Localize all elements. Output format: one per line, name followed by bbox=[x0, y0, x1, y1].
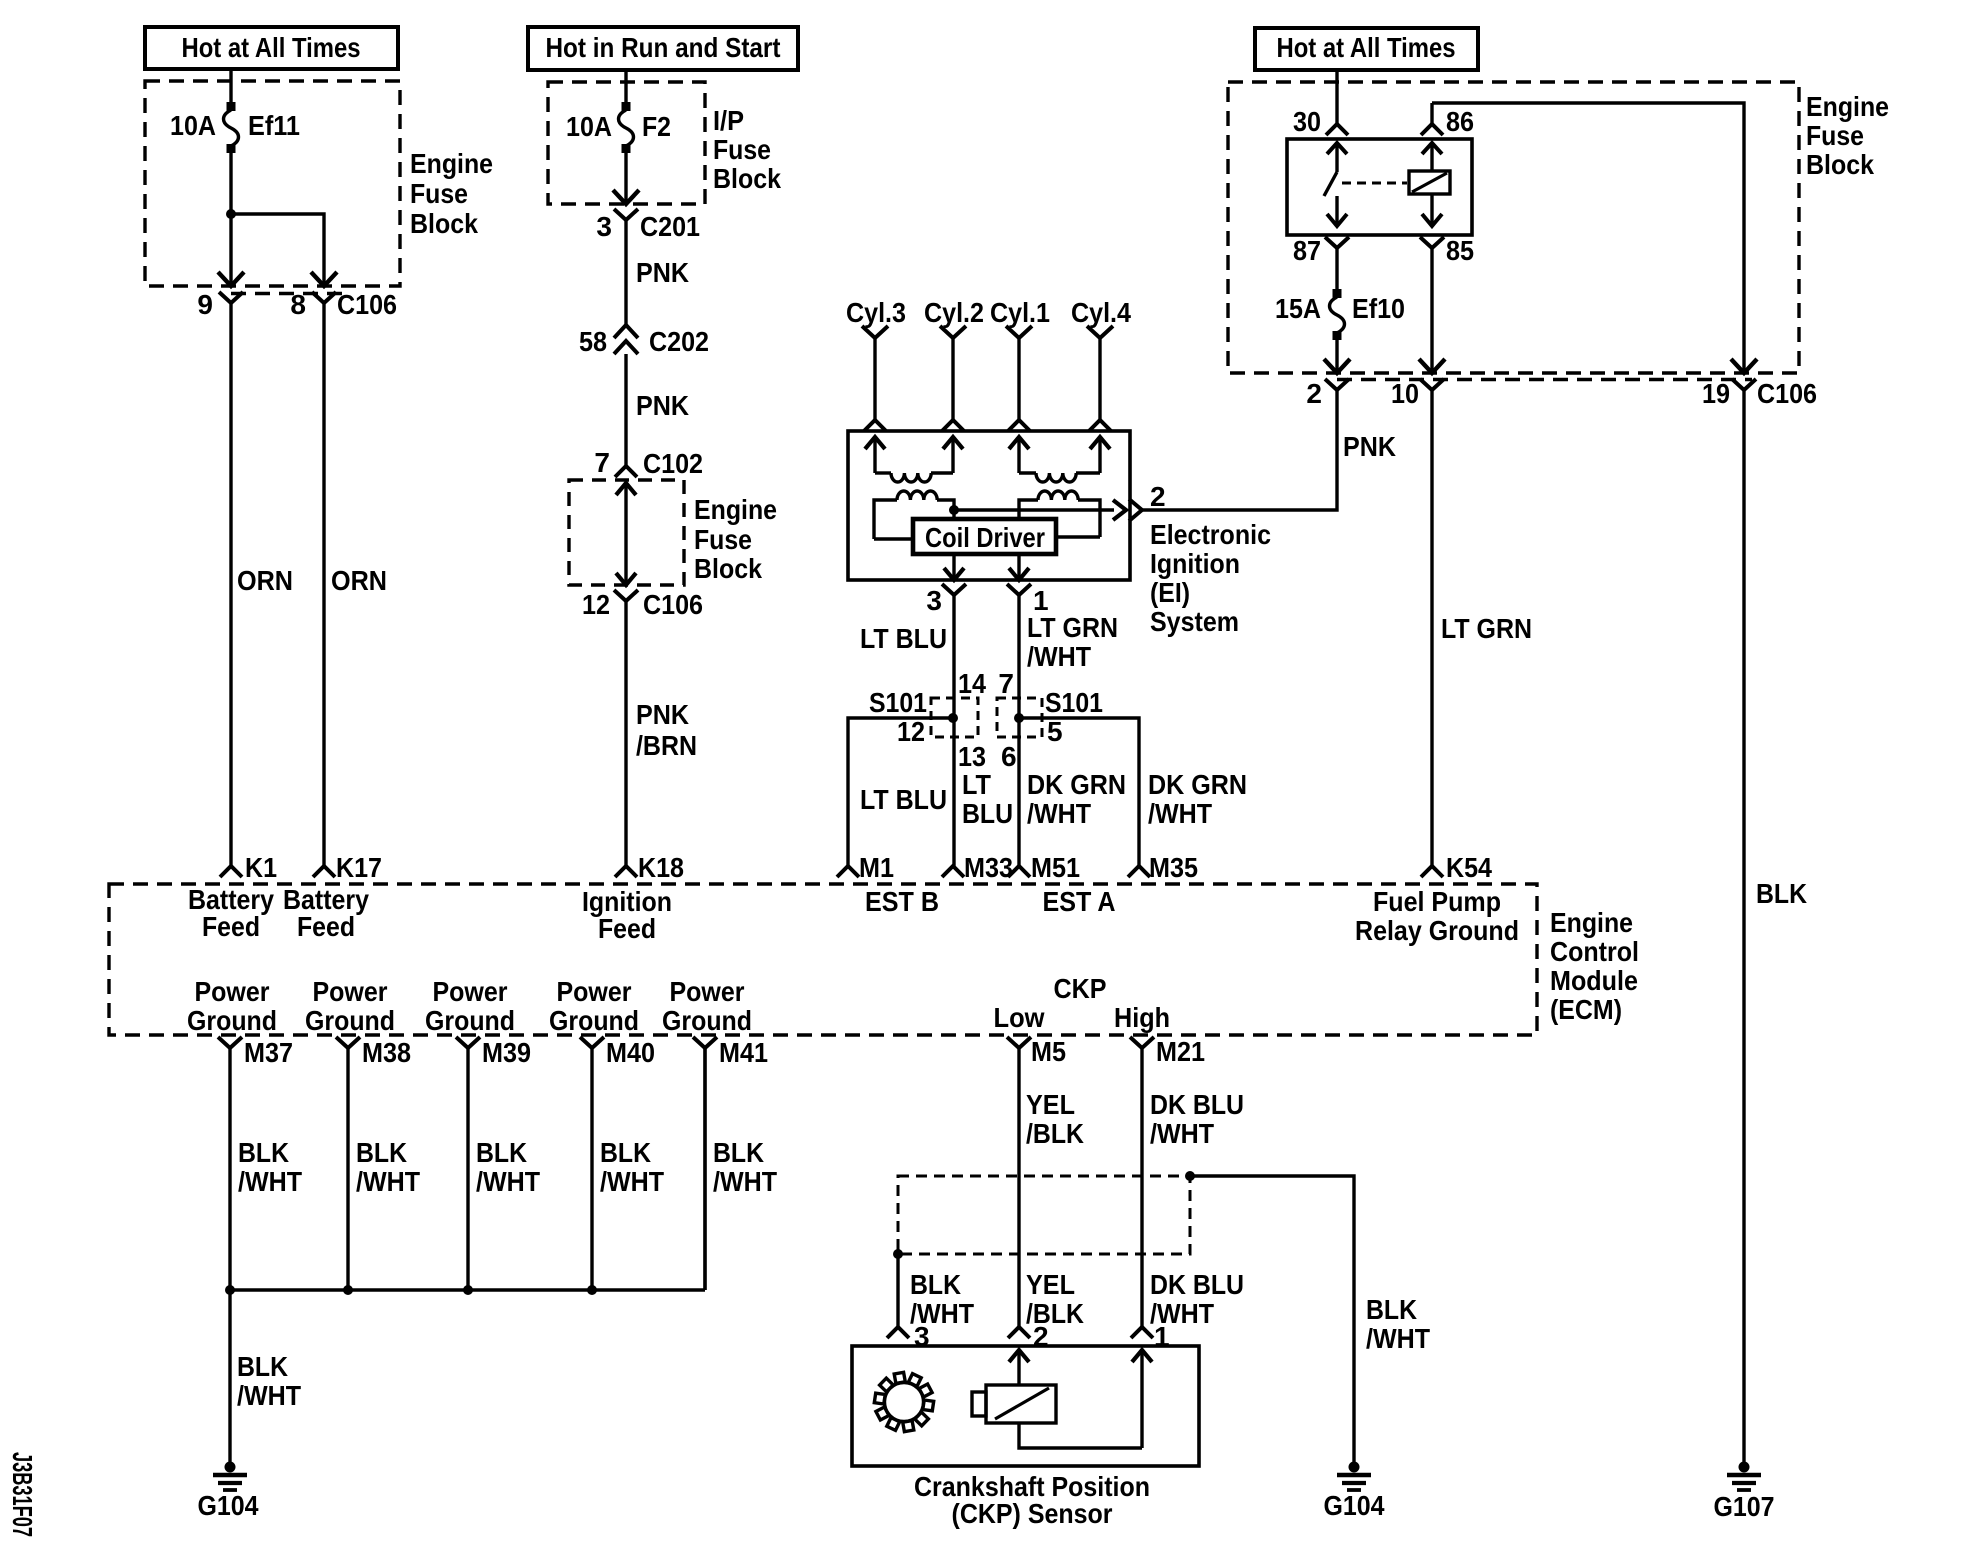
svg-text:Cyl.3: Cyl.3 bbox=[846, 297, 906, 328]
wire PNK/BRN bbox=[624, 601, 627, 866]
svg-text:85: 85 bbox=[1446, 235, 1474, 266]
svg-text:Power: Power bbox=[670, 976, 745, 1007]
svg-text:C106: C106 bbox=[337, 289, 397, 320]
relay link dashed bbox=[1342, 182, 1407, 185]
arrow coil Cyl.3 bbox=[865, 437, 885, 449]
wire LT GRN/WHT bbox=[1017, 595, 1020, 866]
svg-text:Ground: Ground bbox=[549, 1005, 639, 1036]
svg-text:19: 19 bbox=[1702, 378, 1730, 409]
svg-text:Cyl.1: Cyl.1 bbox=[990, 297, 1050, 328]
svg-text:Block: Block bbox=[713, 163, 781, 194]
svg-text:YEL: YEL bbox=[1026, 1089, 1075, 1120]
svg-text:PNK: PNK bbox=[636, 257, 689, 288]
svg-text:M5: M5 bbox=[1031, 1036, 1066, 1067]
svg-text:BLK: BLK bbox=[1366, 1294, 1417, 1325]
junction dot bbox=[226, 209, 236, 219]
label box "Hot in Run and Start" bbox=[528, 27, 798, 70]
svg-text:K1: K1 bbox=[245, 852, 277, 883]
arrow bbox=[1324, 359, 1350, 373]
svg-text:30: 30 bbox=[1293, 106, 1321, 137]
svg-text:Fuel Pump: Fuel Pump bbox=[1373, 886, 1501, 917]
connector K18 bbox=[615, 866, 637, 877]
svg-text:ORN: ORN bbox=[331, 565, 387, 596]
svg-text:S101: S101 bbox=[1045, 687, 1103, 718]
svg-text:M1: M1 bbox=[859, 852, 894, 883]
svg-text:J3B31F07: J3B31F07 bbox=[7, 1452, 38, 1537]
wire BLK/WHT bbox=[703, 1048, 706, 1290]
svg-text:LT BLU: LT BLU bbox=[860, 623, 947, 654]
svg-text:C201: C201 bbox=[640, 211, 700, 242]
engine fuse block (right) dashed box bbox=[1228, 82, 1799, 373]
svg-text:/WHT: /WHT bbox=[1027, 798, 1091, 829]
arrow bbox=[616, 573, 636, 585]
connector M38 bbox=[336, 1037, 360, 1048]
svg-text:87: 87 bbox=[1293, 235, 1321, 266]
arrow bbox=[952, 554, 955, 579]
svg-text:(CKP) Sensor: (CKP) Sensor bbox=[952, 1498, 1113, 1529]
svg-text:Cyl.2: Cyl.2 bbox=[924, 297, 984, 328]
connector M35 bbox=[1128, 866, 1150, 877]
connector pin 8 bbox=[312, 292, 336, 303]
svg-text:10A: 10A bbox=[566, 111, 612, 142]
wire BLK/WHT to G104 bbox=[228, 1290, 231, 1467]
svg-text:Control: Control bbox=[1550, 936, 1639, 967]
connector Cyl.2 at coil bbox=[942, 420, 964, 431]
svg-text:BLK: BLK bbox=[238, 1137, 289, 1168]
svg-text:/WHT: /WHT bbox=[1148, 798, 1212, 829]
connector EI pin 1 bbox=[1007, 584, 1031, 595]
wire BLK/WHT bbox=[590, 1048, 593, 1290]
connector C106 pin 12 bbox=[614, 590, 638, 601]
svg-text:High: High bbox=[1114, 1002, 1170, 1033]
svg-text:/WHT: /WHT bbox=[237, 1380, 301, 1411]
svg-text:CKP: CKP bbox=[1054, 973, 1107, 1004]
svg-text:/BLK: /BLK bbox=[1026, 1118, 1084, 1149]
wire YEL/BLK bbox=[1017, 1048, 1020, 1327]
connector M21 bbox=[1130, 1037, 1154, 1048]
wire BLK/WHT bbox=[346, 1048, 349, 1290]
svg-text:BLK: BLK bbox=[713, 1137, 764, 1168]
wire shield to G104 bbox=[1190, 1176, 1354, 1467]
svg-text:Ignition: Ignition bbox=[1150, 548, 1240, 579]
CKP reluctor gear bbox=[885, 1383, 924, 1422]
svg-text:Feed: Feed bbox=[202, 911, 260, 942]
svg-text:Power: Power bbox=[313, 976, 388, 1007]
svg-text:Ef11: Ef11 bbox=[248, 110, 300, 141]
svg-text:13: 13 bbox=[958, 741, 986, 772]
connector C201 pin 3 bbox=[614, 209, 638, 220]
wire DK BLU/WHT bbox=[1140, 1048, 1143, 1327]
wire BLK bbox=[1742, 390, 1745, 1467]
svg-text:/WHT: /WHT bbox=[1366, 1323, 1430, 1354]
wire DK GRN/WHT to M35 bbox=[1019, 718, 1139, 866]
wire bbox=[1430, 248, 1433, 371]
label box "Hot at All Times" (left) bbox=[145, 27, 398, 69]
svg-text:C102: C102 bbox=[643, 448, 703, 479]
ground G104 (left) bbox=[225, 1462, 236, 1473]
wire bbox=[231, 214, 324, 284]
connector C106 pin 10 bbox=[1420, 379, 1444, 390]
connector Cyl.1 at coil bbox=[1008, 420, 1030, 431]
arrow bbox=[613, 190, 639, 204]
svg-text:/BRN: /BRN bbox=[636, 730, 697, 761]
svg-text:(ECM): (ECM) bbox=[1550, 994, 1622, 1025]
svg-text:M39: M39 bbox=[482, 1037, 531, 1068]
svg-text:10A: 10A bbox=[170, 110, 216, 141]
svg-text:BLK: BLK bbox=[476, 1137, 527, 1168]
svg-text:(EI): (EI) bbox=[1150, 577, 1190, 608]
wire PNK to EI bbox=[1142, 390, 1337, 510]
arrow bbox=[1419, 359, 1445, 373]
wire sensor loop bbox=[1019, 1423, 1142, 1448]
svg-text:Ground: Ground bbox=[305, 1005, 395, 1036]
connector K54 bbox=[1421, 866, 1443, 877]
svg-text:I/P: I/P bbox=[713, 105, 744, 136]
CKP pickup coil bbox=[972, 1392, 986, 1416]
svg-text:Fuse: Fuse bbox=[713, 134, 771, 165]
svg-text:System: System bbox=[1150, 606, 1239, 637]
wire bbox=[1432, 103, 1744, 371]
fuse Ef10 15A bbox=[1333, 289, 1342, 298]
connector Cyl.4 bbox=[1087, 326, 1113, 338]
wire bbox=[1430, 103, 1433, 124]
svg-text:/WHT: /WHT bbox=[356, 1166, 420, 1197]
svg-text:PNK: PNK bbox=[1343, 431, 1396, 462]
svg-text:LT GRN: LT GRN bbox=[1441, 613, 1532, 644]
svg-text:M38: M38 bbox=[362, 1037, 411, 1068]
svg-text:/WHT: /WHT bbox=[600, 1166, 664, 1197]
svg-text:14: 14 bbox=[958, 668, 986, 699]
svg-text:Ground: Ground bbox=[187, 1005, 277, 1036]
junction dot bbox=[225, 1285, 235, 1295]
arrow bbox=[311, 272, 337, 286]
svg-text:M21: M21 bbox=[1156, 1036, 1205, 1067]
svg-text:3: 3 bbox=[926, 585, 942, 616]
connector M39 bbox=[456, 1037, 480, 1048]
svg-text:M41: M41 bbox=[719, 1037, 768, 1068]
junction dot bbox=[949, 505, 959, 515]
svg-text:/WHT: /WHT bbox=[476, 1166, 540, 1197]
wire bbox=[1098, 338, 1101, 420]
svg-text:BLK: BLK bbox=[910, 1269, 961, 1300]
connector M41 bbox=[693, 1037, 717, 1048]
engine fuse block (left) dashed box bbox=[145, 81, 400, 286]
svg-text:Engine: Engine bbox=[1550, 907, 1633, 938]
svg-text:G107: G107 bbox=[1714, 1491, 1775, 1522]
svg-text:G104: G104 bbox=[198, 1490, 259, 1521]
relay switch arm bbox=[1335, 146, 1338, 172]
svg-text:2: 2 bbox=[1306, 378, 1322, 409]
svg-text:PNK: PNK bbox=[636, 390, 689, 421]
svg-text:86: 86 bbox=[1446, 106, 1474, 137]
svg-text:Electronic: Electronic bbox=[1150, 519, 1271, 550]
wire EI output bbox=[954, 508, 1114, 511]
primary winding right bbox=[1019, 500, 1038, 519]
wire BLK/WHT bbox=[228, 1048, 231, 1290]
wire bbox=[873, 338, 876, 420]
shield dashed box bbox=[898, 1176, 1190, 1254]
svg-text:K18: K18 bbox=[638, 852, 684, 883]
connector C106 pin 19 bbox=[1732, 379, 1756, 390]
wire PNK bbox=[624, 354, 627, 466]
primary winding left bbox=[874, 500, 897, 539]
svg-text:BLU: BLU bbox=[962, 798, 1013, 829]
connector CKP pin 3 bbox=[887, 1327, 909, 1338]
svg-text:Relay Ground: Relay Ground bbox=[1355, 915, 1519, 946]
svg-text:Fuse: Fuse bbox=[410, 178, 468, 209]
svg-text:EST A: EST A bbox=[1043, 886, 1116, 917]
arrow bbox=[616, 483, 636, 495]
svg-text:Engine: Engine bbox=[694, 494, 777, 525]
svg-text:Cyl.4: Cyl.4 bbox=[1071, 297, 1131, 328]
arrow coil Cyl.4 bbox=[1090, 437, 1110, 449]
svg-text:ORN: ORN bbox=[237, 565, 293, 596]
svg-text:DK GRN: DK GRN bbox=[1027, 769, 1126, 800]
svg-text:Hot at All Times: Hot at All Times bbox=[1277, 32, 1456, 63]
svg-text:C106: C106 bbox=[1757, 378, 1817, 409]
coil driver box bbox=[913, 519, 1056, 554]
svg-text:3: 3 bbox=[596, 211, 612, 242]
connector Cyl.4 at coil bbox=[1089, 420, 1111, 431]
junction dot bbox=[463, 1285, 473, 1295]
svg-text:58: 58 bbox=[579, 326, 607, 357]
svg-text:PNK: PNK bbox=[636, 699, 689, 730]
connector M33 bbox=[942, 866, 964, 877]
svg-text:S101: S101 bbox=[869, 687, 927, 718]
svg-text:K54: K54 bbox=[1446, 852, 1492, 883]
svg-text:Coil Driver: Coil Driver bbox=[925, 522, 1045, 553]
svg-text:5: 5 bbox=[1047, 716, 1063, 747]
svg-text:YEL: YEL bbox=[1026, 1269, 1075, 1300]
svg-text:/WHT: /WHT bbox=[1150, 1118, 1214, 1149]
connector C106 pin 2 bbox=[1325, 379, 1349, 390]
svg-text:M33: M33 bbox=[964, 852, 1013, 883]
connector C102 pin 7 bbox=[615, 466, 637, 477]
connector EI pin 2 bbox=[1129, 499, 1142, 521]
arrow bbox=[1731, 359, 1757, 373]
svg-text:Low: Low bbox=[994, 1002, 1045, 1033]
svg-text:BLK: BLK bbox=[237, 1351, 288, 1382]
svg-text:Engine: Engine bbox=[410, 148, 493, 179]
wire LT GRN bbox=[1430, 390, 1433, 866]
svg-text:BLK: BLK bbox=[600, 1137, 651, 1168]
svg-text:C106: C106 bbox=[643, 589, 703, 620]
svg-text:7: 7 bbox=[594, 447, 610, 478]
connector EI pin 3 bbox=[942, 584, 966, 595]
svg-text:Block: Block bbox=[1806, 149, 1874, 180]
wire PNK bbox=[624, 220, 627, 325]
svg-text:M51: M51 bbox=[1031, 852, 1080, 883]
connector relay pin 30 bbox=[1326, 124, 1348, 135]
svg-text:K17: K17 bbox=[336, 852, 382, 883]
svg-text:M37: M37 bbox=[244, 1037, 293, 1068]
svg-text:M40: M40 bbox=[606, 1037, 655, 1068]
svg-text:Fuse: Fuse bbox=[1806, 120, 1864, 151]
connector C106 dashed line (pins 9,8) bbox=[231, 292, 343, 295]
svg-text:/WHT: /WHT bbox=[1027, 641, 1091, 672]
splice S101 right dashed box bbox=[997, 698, 1042, 737]
I/P fuse block dashed box bbox=[548, 82, 705, 204]
wire bbox=[874, 537, 913, 540]
svg-text:Ground: Ground bbox=[425, 1005, 515, 1036]
wire LT BLU to M1 bbox=[848, 718, 953, 866]
fuse F2 10A bbox=[622, 102, 631, 111]
svg-text:M35: M35 bbox=[1149, 852, 1198, 883]
ground G107 bbox=[1739, 1462, 1750, 1473]
svg-text:15A: 15A bbox=[1275, 293, 1321, 324]
svg-text:Fuse: Fuse bbox=[694, 524, 752, 555]
svg-text:C202: C202 bbox=[649, 326, 709, 357]
relay coil arrow up bbox=[1430, 146, 1433, 171]
wire ORN bbox=[229, 303, 232, 866]
relay arrow down 87 bbox=[1335, 196, 1338, 225]
connector Cyl.3 bbox=[862, 326, 888, 338]
connector Cyl.1 bbox=[1006, 326, 1032, 338]
svg-text:Ground: Ground bbox=[662, 1005, 752, 1036]
connector C106 dashed line (pins 2,10,19) bbox=[1337, 378, 1752, 381]
wire bbox=[229, 150, 232, 284]
wire BLK/WHT shield bbox=[896, 1254, 899, 1327]
svg-text:Power: Power bbox=[557, 976, 632, 1007]
connector relay pin 85 bbox=[1420, 237, 1444, 248]
junction dot bbox=[587, 1285, 597, 1295]
svg-text:Feed: Feed bbox=[598, 913, 656, 944]
svg-text:Ef10: Ef10 bbox=[1352, 293, 1405, 324]
connector relay pin 86 bbox=[1421, 124, 1443, 135]
wire bbox=[229, 69, 232, 103]
relay arrow down 85 bbox=[1430, 194, 1433, 225]
wire bbox=[1335, 248, 1338, 291]
relay coil bbox=[1409, 171, 1450, 194]
arrow bbox=[1113, 500, 1126, 520]
svg-text:8: 8 bbox=[290, 289, 306, 320]
connector M5 bbox=[1007, 1037, 1031, 1048]
svg-text:BLK: BLK bbox=[1756, 878, 1807, 909]
ground bus wire bbox=[230, 1288, 705, 1291]
secondary winding Cyl.1-Cyl.4 bbox=[1019, 471, 1036, 474]
connector relay pin 87 bbox=[1325, 237, 1349, 248]
svg-text:Hot in Run and Start: Hot in Run and Start bbox=[546, 32, 781, 63]
wire bbox=[951, 338, 954, 420]
connector M1 bbox=[837, 866, 859, 877]
svg-text:Engine: Engine bbox=[1806, 91, 1889, 122]
svg-text:LT: LT bbox=[962, 769, 991, 800]
arrow coil Cyl.2 bbox=[943, 437, 963, 449]
connector Cyl.3 at coil bbox=[864, 420, 886, 431]
svg-text:LT BLU: LT BLU bbox=[860, 784, 947, 815]
svg-text:DK BLU: DK BLU bbox=[1150, 1089, 1244, 1120]
connector M37 bbox=[218, 1037, 242, 1048]
ground G104 (right) bbox=[1349, 1462, 1360, 1473]
fuse Ef11 10A bbox=[227, 102, 236, 111]
crankshaft position sensor box bbox=[852, 1346, 1199, 1466]
connector K17 bbox=[313, 866, 335, 877]
arrow bbox=[218, 272, 244, 286]
junction dot bbox=[893, 1249, 903, 1259]
arrow coil Cyl.1 bbox=[1009, 437, 1029, 449]
engine fuse block (middle) dashed box bbox=[569, 480, 684, 585]
connector K1 bbox=[220, 866, 242, 877]
svg-text:EST B: EST B bbox=[865, 886, 939, 917]
svg-text:2: 2 bbox=[1150, 481, 1166, 512]
svg-text:12: 12 bbox=[582, 589, 610, 620]
wire bbox=[624, 70, 627, 103]
svg-text:G104: G104 bbox=[1324, 1490, 1385, 1521]
connector C202 pin 58 bbox=[614, 325, 638, 338]
splice S101 left dashed box bbox=[931, 698, 978, 737]
svg-text:/WHT: /WHT bbox=[238, 1166, 302, 1197]
connector M51 bbox=[1008, 866, 1030, 877]
svg-text:9: 9 bbox=[197, 289, 213, 320]
connector CKP pin 1 bbox=[1131, 1327, 1153, 1338]
svg-text:12: 12 bbox=[897, 716, 925, 747]
svg-text:DK BLU: DK BLU bbox=[1150, 1269, 1244, 1300]
ignition coil assembly box bbox=[848, 431, 1130, 580]
fuel pump relay box bbox=[1287, 139, 1472, 235]
connector Cyl.2 bbox=[940, 326, 966, 338]
junction dot S101 right bbox=[1014, 713, 1024, 723]
label box "Hot at All Times" (right) bbox=[1255, 28, 1478, 70]
wire ORN bbox=[322, 303, 325, 866]
svg-text:LT GRN: LT GRN bbox=[1027, 612, 1118, 643]
svg-text:Hot at All Times: Hot at All Times bbox=[182, 32, 361, 63]
wire LT BLU bbox=[952, 595, 955, 866]
connector pin 9 bbox=[219, 292, 243, 303]
wire bbox=[1335, 337, 1338, 371]
svg-text:Power: Power bbox=[195, 976, 270, 1007]
connector CKP pin 2 bbox=[1008, 1327, 1030, 1338]
wire BLK/WHT bbox=[466, 1048, 469, 1290]
svg-text:BLK: BLK bbox=[356, 1137, 407, 1168]
wire bbox=[1056, 535, 1100, 538]
junction dot bbox=[1185, 1171, 1195, 1181]
svg-text:Module: Module bbox=[1550, 965, 1638, 996]
arrow CKP pin 1 bbox=[1132, 1350, 1152, 1362]
svg-text:DK GRN: DK GRN bbox=[1148, 769, 1247, 800]
svg-text:6: 6 bbox=[1001, 741, 1017, 772]
svg-text:Power: Power bbox=[433, 976, 508, 1007]
connector M40 bbox=[580, 1037, 604, 1048]
junction dot bbox=[343, 1285, 353, 1295]
arrow CKP pin 2 bbox=[1009, 1350, 1029, 1362]
wire bbox=[624, 150, 627, 202]
secondary winding Cyl.3-Cyl.2 bbox=[875, 471, 891, 474]
wire bbox=[1335, 70, 1338, 124]
svg-text:10: 10 bbox=[1391, 378, 1419, 409]
wire bbox=[624, 483, 627, 583]
wire bbox=[1017, 338, 1020, 420]
junction dot S101 left bbox=[948, 713, 958, 723]
svg-text:7: 7 bbox=[998, 668, 1014, 699]
svg-text:Block: Block bbox=[410, 208, 478, 239]
svg-text:Feed: Feed bbox=[297, 911, 355, 942]
svg-text:F2: F2 bbox=[642, 111, 671, 142]
svg-text:/WHT: /WHT bbox=[713, 1166, 777, 1197]
engine control module dashed box bbox=[109, 884, 1537, 1035]
svg-text:Block: Block bbox=[694, 553, 762, 584]
arrow bbox=[1017, 554, 1020, 579]
